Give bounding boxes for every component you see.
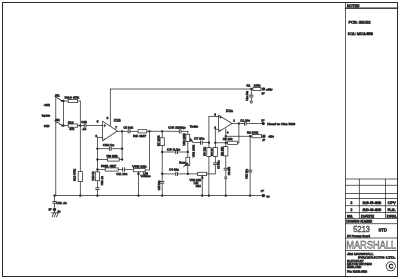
svg-text:ISS.: ISS. (347, 215, 353, 219)
capacitor C7 10n (193, 137, 209, 145)
svg-text:Treble: Treble (190, 125, 199, 129)
pin 8 label (107, 116, 109, 120)
node C7 junction (208, 142, 210, 144)
label -6dB (44, 103, 50, 107)
resistor R6 10k (202, 143, 211, 196)
svg-text:NOTES: NOTES (347, 4, 360, 8)
resistor R14 47k (63, 96, 80, 103)
capacitor C10 1n feedback (97, 143, 122, 150)
node C13 junction (79, 125, 81, 127)
note PCB (349, 20, 371, 24)
svg-text:0dB: 0dB (44, 124, 49, 128)
pin 6 label (95, 134, 97, 138)
svg-text:R10 1k: R10 1k (91, 171, 95, 180)
node pin4 V- rail junction (225, 135, 227, 137)
svg-text:3: 3 (214, 113, 216, 117)
svg-text:Inputs: Inputs (42, 114, 51, 118)
svg-text:Volume: Volume (141, 174, 151, 178)
node R9 right junction (121, 159, 123, 161)
label 0dB (44, 124, 49, 128)
wire to IC1b pin5 (86, 125, 103, 127)
svg-text:C5 10u: C5 10u (217, 160, 221, 169)
node rail C15 junction (161, 195, 163, 197)
node C10 left junction (97, 148, 99, 150)
wire feedback drop from output (121, 131, 123, 159)
node R9 left junction (97, 159, 99, 161)
node preset marker (225, 177, 227, 196)
capacitor C15 10u (157, 180, 164, 196)
capacitor C5 10u (214, 156, 221, 169)
wire volume top riser (145, 131, 149, 170)
terminal +15v (262, 87, 273, 95)
drawing number 5213 STD (353, 225, 387, 234)
note IC1 (348, 32, 373, 36)
capacitor C3 n33 (224, 166, 231, 176)
capacitor C9 0.1u (162, 147, 188, 153)
capacitor C16 .1u (96, 176, 104, 196)
wire 0v ground rail (55, 195, 263, 197)
svg-text:16-5-88: 16-5-88 (363, 201, 382, 205)
node rail C12 junction (249, 195, 251, 197)
node rail C3 junction (225, 195, 227, 197)
svg-text:Head to Chn R23: Head to Chn R23 (267, 122, 295, 126)
resistor R12 470k (73, 168, 83, 195)
wire IC1a pin2 input (215, 129, 218, 143)
capacitor C1a 10u (245, 89, 253, 101)
terminal E mains earth (49, 208, 62, 214)
revision header row (347, 215, 397, 219)
MARSHALL logo text (346, 240, 398, 252)
op-amp IC1a (219, 109, 233, 132)
svg-text:IC1a: IC1a (226, 109, 233, 113)
svg-text:+15v: +15v (266, 87, 273, 91)
wire IC1b pin8 riser (109, 89, 111, 126)
node rail R6 junction (208, 195, 210, 197)
address block (347, 252, 396, 273)
svg-text:File: 5213B.GEM: File: 5213B.GEM (347, 270, 367, 274)
svg-text:+: + (220, 116, 222, 120)
svg-text:E*: E* (49, 208, 53, 212)
pin 3 label (214, 113, 216, 117)
svg-text:8: 8 (107, 116, 109, 120)
capacitor C18 .1u (53, 196, 67, 213)
node C10 right junction (121, 148, 123, 150)
svg-text:R5 10k: R5 10k (223, 137, 233, 141)
svg-text:2: 2 (351, 208, 353, 212)
svg-text:Mid: Mid (196, 184, 201, 188)
svg-text:C9 0.1u: C9 0.1u (167, 147, 181, 151)
revision row 3 (351, 201, 397, 205)
pin 4 label (227, 131, 229, 135)
svg-text:DRN.: DRN. (387, 215, 397, 219)
jack J52 (55, 118, 63, 126)
svg-text:C10 1n: C10 1n (103, 143, 115, 147)
label Inputs (42, 114, 51, 118)
wire mid pot right leg (207, 165, 216, 174)
pin 1 label (233, 118, 235, 122)
svg-text:C8 220p: C8 220p (168, 126, 186, 130)
wire IC1a pin3 riser (209, 117, 219, 143)
svg-text:4: 4 (227, 131, 229, 135)
capacitor C13 .1u (81, 120, 87, 131)
node rail jack junction (54, 195, 56, 197)
svg-text:5: 5 (97, 120, 99, 124)
svg-text:VR1 100k: VR1 100k (192, 144, 196, 157)
drawing number banner (346, 220, 398, 224)
revision row 2 (351, 208, 396, 212)
copyright symbol (386, 262, 395, 271)
node R11 junction (97, 169, 99, 171)
svg-text:C4 22n: C4 22n (169, 168, 179, 172)
svg-text:PCB: JMU22: PCB: JMU22 (349, 20, 371, 24)
node rail C16 junction (97, 195, 99, 197)
svg-text:R1: R1 (247, 83, 251, 87)
op-amp IC1b (103, 119, 121, 141)
node rail mid junction (201, 195, 203, 197)
svg-text:2: 2 (214, 125, 216, 129)
node C9 left junction (161, 151, 163, 153)
resistor R9 22k feedback (97, 154, 122, 161)
resistor R8 4M7 (133, 130, 179, 138)
label Treble (190, 125, 199, 129)
node rail volume junction (138, 195, 140, 197)
potentiometer VR5 22k volume (132, 164, 151, 195)
svg-text:C1a 10u: C1a 10u (245, 90, 249, 100)
svg-text:CPV: CPV (388, 201, 397, 205)
wire V+ bias rail (110, 88, 251, 90)
svg-text:C1 10u: C1 10u (240, 119, 250, 123)
wire V- rail (226, 135, 252, 137)
resistor R10 1k (91, 171, 100, 187)
svg-text:STD: STD (379, 227, 387, 232)
pin 7 label (115, 125, 117, 129)
terminal -15v (262, 135, 274, 143)
svg-text:VR5 22k: VR5 22k (132, 164, 147, 168)
pin 2 label (214, 125, 216, 129)
svg-text:MARSHALL: MARSHALL (346, 240, 396, 252)
svg-text:47k: 47k (69, 127, 74, 131)
wire IC1a output (232, 123, 244, 125)
terminal D output (261, 119, 295, 126)
potentiometer VR1 100k bass (184, 144, 196, 174)
resistor R11 4k7 (97, 164, 122, 171)
svg-text:C18 .1u: C18 .1u (56, 201, 67, 205)
title column divider line (345, 3, 347, 277)
svg-text:5213: 5213 (353, 225, 370, 234)
svg-text:DATE: DATE (361, 215, 374, 219)
jack J51 (55, 94, 63, 102)
node J51 tip junction (63, 100, 65, 102)
svg-text:3: 3 (351, 201, 353, 205)
node C4 right junction (187, 173, 189, 175)
svg-text:C8 2u2: C8 2u2 (123, 126, 133, 130)
label Bass (179, 160, 186, 164)
node V+ rail C1a junction (250, 88, 252, 90)
node IC1a output junction (238, 123, 240, 125)
capacitor C8 2u2 (123, 126, 138, 134)
svg-text:1: 1 (233, 118, 235, 122)
resistor R2 100k (247, 130, 263, 137)
node volume riser junction (149, 130, 151, 132)
revision table grid (346, 179, 398, 218)
svg-text:C7 10n: C7 10n (194, 137, 205, 141)
wire IC1b output (117, 130, 127, 132)
node C12 top junction (249, 135, 251, 137)
svg-text:A*: A* (262, 138, 266, 142)
capacitor C6 220p (168, 126, 188, 133)
capacitor C1 10u (240, 119, 262, 126)
svg-text:-15v: -15v (268, 135, 274, 139)
svg-text:IC1: MC1458: IC1: MC1458 (348, 32, 373, 36)
terminal 0v decouple (250, 101, 252, 103)
svg-text:R11 4k7: R11 4k7 (101, 164, 116, 168)
svg-text:DRAWING NUMBER: DRAWING NUMBER (346, 220, 372, 224)
svg-text:R9 22k: R9 22k (107, 154, 119, 158)
node R5 column junction (225, 142, 227, 144)
svg-text:R8 4M7: R8 4M7 (133, 134, 146, 138)
resistor R5 10k feedback (215, 124, 239, 145)
wire jack ground bus (55, 97, 57, 196)
svg-text:0v: 0v (267, 194, 271, 198)
svg-text:.1u: .1u (82, 127, 87, 131)
wire normalling link (62, 101, 64, 126)
wire IC1a pin4 drop (225, 129, 227, 143)
svg-text:VR3 100k: VR3 100k (182, 133, 186, 146)
svg-text:PRODUCTS LTD.: PRODUCTS LTD. (358, 255, 396, 259)
potentiometer VR2 22k mid (188, 172, 207, 195)
ground chassis symbol (52, 213, 59, 217)
node R7 column junction (161, 130, 163, 132)
svg-text:R.S.: R.S. (388, 208, 396, 212)
pin 5 label (97, 120, 99, 124)
svg-text:-: - (104, 137, 105, 141)
wire R14 drop to R12 column (79, 101, 81, 172)
resistor R7 100k (157, 131, 165, 181)
NOTES header (346, 4, 398, 8)
svg-text:+: + (104, 124, 106, 128)
svg-text:C13: C13 (81, 120, 87, 124)
svg-text:-: - (220, 128, 221, 132)
node rail R12 junction (79, 195, 81, 197)
svg-text:R2 100k: R2 100k (247, 130, 259, 134)
potentiometer VR3 100k treble (182, 131, 193, 157)
resistor R1 100k (247, 83, 263, 90)
svg-text:C3 n33: C3 n33 (227, 166, 231, 175)
svg-text:C11 10u: C11 10u (116, 172, 127, 176)
svg-text:100k: 100k (254, 83, 261, 87)
svg-text:7: 7 (115, 125, 117, 129)
svg-text:I/O Preamp Board: I/O Preamp Board (347, 234, 370, 238)
svg-text:C16 .1u: C16 .1u (100, 176, 104, 186)
svg-text:C*: C* (261, 189, 265, 193)
terminal C 0v rail end (261, 189, 270, 198)
capacitor C4 22n (162, 168, 188, 176)
wire IC1b pin6 input (97, 137, 102, 172)
node IC1b output junction (121, 130, 123, 132)
svg-text:C: C (389, 264, 394, 270)
capacitor C12 10u (244, 136, 252, 195)
resistor R4 1k (210, 143, 218, 157)
svg-text:-6dB: -6dB (44, 103, 50, 107)
svg-text:B*: B* (262, 91, 266, 95)
svg-text:IC1b: IC1b (114, 119, 121, 123)
node C4 left junction (161, 173, 163, 175)
node C9 right junction (187, 151, 189, 153)
node R5 row left junction (214, 142, 216, 144)
resistor R3 47k (220, 143, 228, 168)
resistor R13 47k (63, 121, 83, 132)
svg-text:Bass: Bass (179, 160, 186, 164)
svg-text:R12 470k: R12 470k (73, 168, 77, 181)
capacitor C11 10u (116, 168, 133, 176)
subtitle preamp board (346, 234, 398, 238)
svg-text:10-6-86: 10-6-86 (363, 208, 382, 212)
svg-text:C12 10u: C12 10u (244, 169, 248, 179)
svg-text:R6 10k: R6 10k (202, 146, 206, 155)
node J52 tip junction (63, 125, 65, 127)
